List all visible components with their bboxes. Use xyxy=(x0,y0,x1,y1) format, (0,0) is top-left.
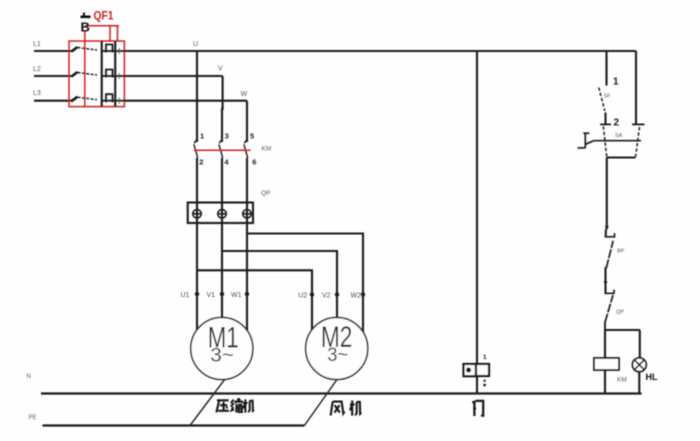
svg-text:V2: V2 xyxy=(322,293,331,300)
svg-text:1: 1 xyxy=(483,354,487,361)
svg-text:QP: QP xyxy=(616,310,624,316)
svg-text:KM: KM xyxy=(617,377,627,384)
svg-text:L3: L3 xyxy=(33,90,41,97)
svg-text:3: 3 xyxy=(225,131,229,140)
svg-text:QF1: QF1 xyxy=(94,9,114,23)
svg-text:1: 1 xyxy=(613,76,619,87)
svg-text:5: 5 xyxy=(250,131,254,140)
svg-text:U1: U1 xyxy=(181,292,190,299)
svg-text:BP: BP xyxy=(617,249,625,255)
svg-text:N: N xyxy=(27,374,31,380)
svg-text:HL: HL xyxy=(646,372,658,382)
svg-text:V: V xyxy=(218,66,223,73)
svg-text:2: 2 xyxy=(199,157,203,166)
svg-text:B: B xyxy=(81,19,90,34)
svg-text:L1: L1 xyxy=(33,41,41,48)
svg-text:6: 6 xyxy=(252,157,256,166)
svg-text:W1: W1 xyxy=(231,292,242,299)
svg-text:SF: SF xyxy=(604,94,612,100)
svg-text:W2: W2 xyxy=(351,293,362,300)
svg-text:1: 1 xyxy=(200,131,204,140)
svg-text:U: U xyxy=(193,41,198,48)
svg-text:3~: 3~ xyxy=(327,345,348,366)
svg-text:SA: SA xyxy=(615,133,623,139)
svg-text:W: W xyxy=(241,91,248,98)
svg-text:KM: KM xyxy=(262,146,272,153)
svg-text:2: 2 xyxy=(614,118,620,129)
svg-text:QP: QP xyxy=(261,190,270,197)
svg-text:L2: L2 xyxy=(33,66,41,73)
svg-text:U2: U2 xyxy=(298,293,307,300)
svg-text:3~: 3~ xyxy=(210,346,234,367)
svg-text:V1: V1 xyxy=(207,292,216,299)
svg-text:PE: PE xyxy=(29,415,37,421)
